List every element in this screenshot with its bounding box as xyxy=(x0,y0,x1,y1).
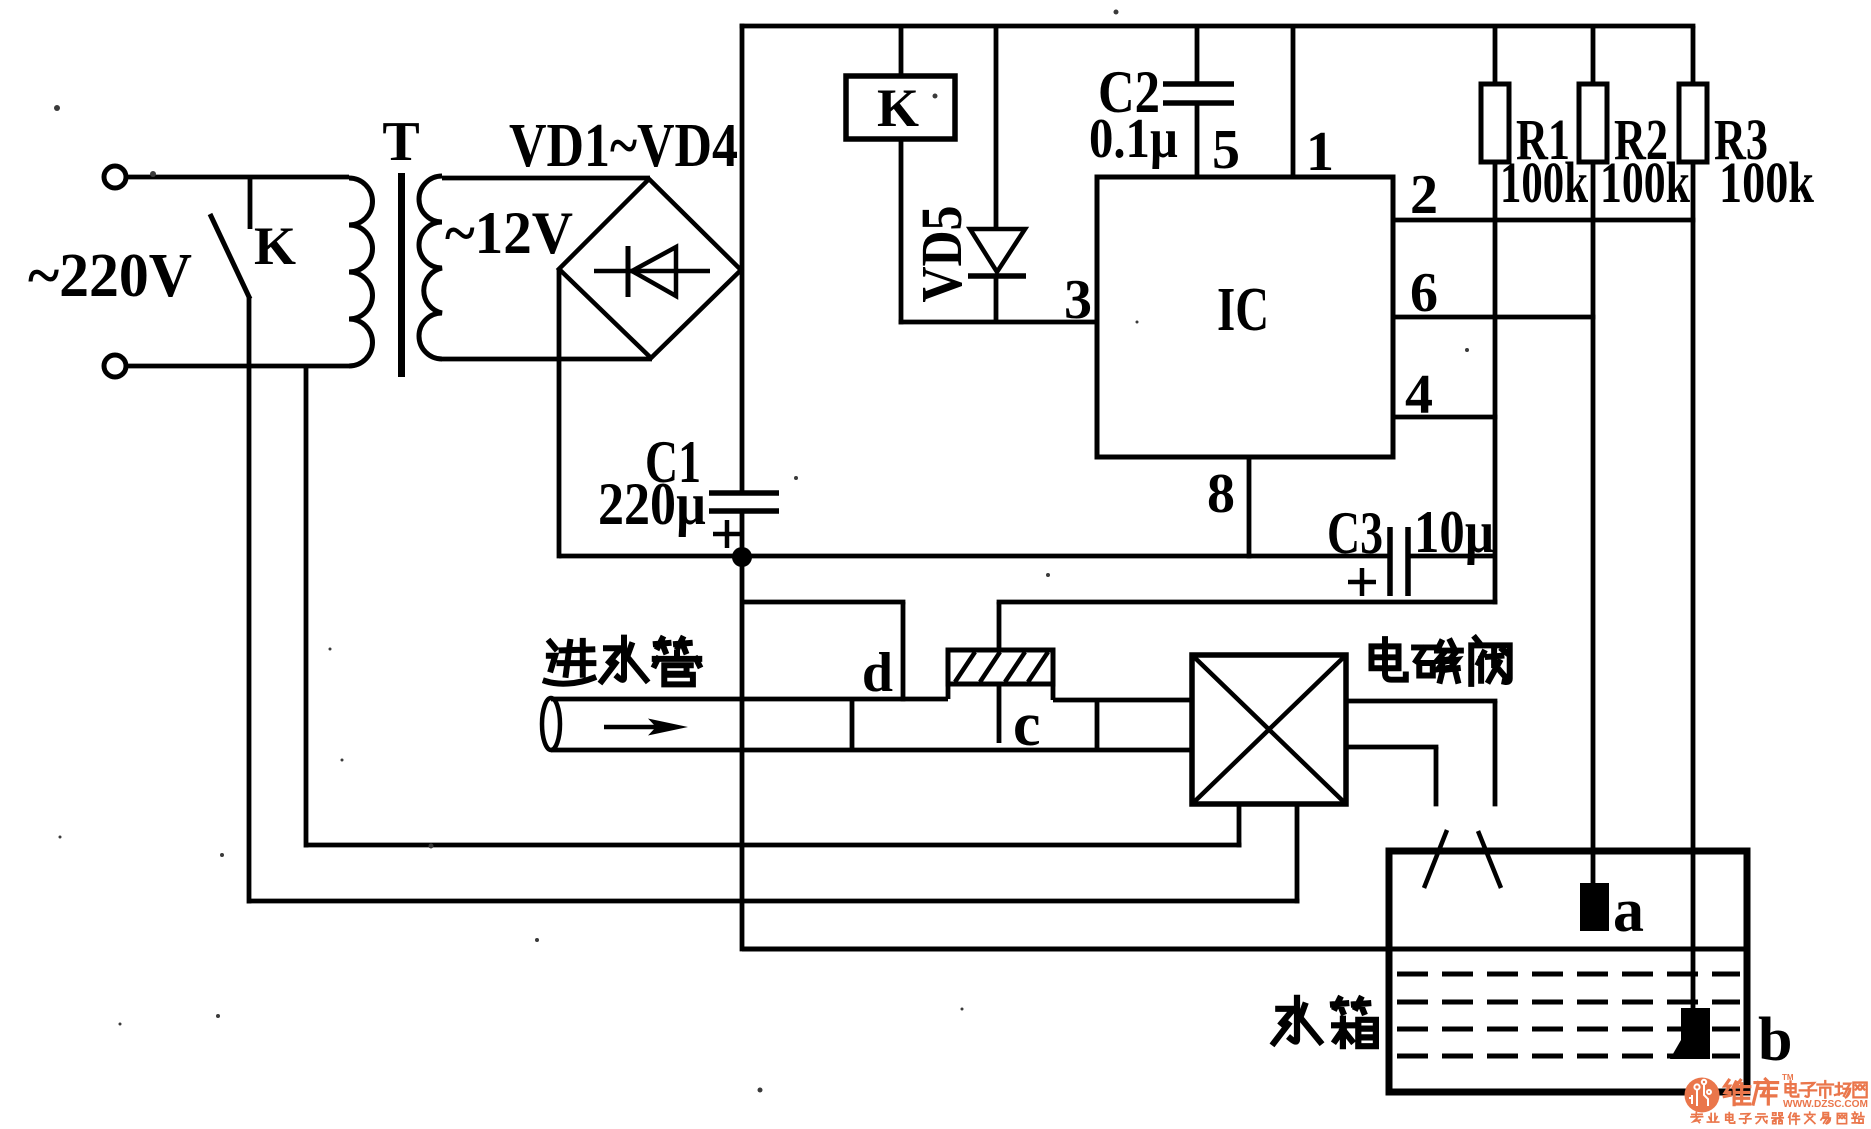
flow sensor left wall to pipe xyxy=(946,684,951,699)
valve outlet pipe right wall xyxy=(1493,701,1498,806)
electrode b xyxy=(1681,1008,1710,1059)
svg-text:220µ: 220µ xyxy=(598,471,706,537)
wire lower rail to solenoid valve right terminal xyxy=(249,899,1300,904)
wire junction to contact d xyxy=(742,600,905,605)
svg-text:1: 1 xyxy=(1306,121,1334,183)
pin 6 wire xyxy=(1393,315,1595,320)
svg-text:b: b xyxy=(1758,1006,1792,1074)
water dashed line 4 xyxy=(1397,1054,1740,1059)
transformer T secondary winding xyxy=(419,176,442,359)
svg-text:6: 6 xyxy=(1410,262,1438,324)
water dashed line 1 xyxy=(1397,972,1740,977)
ground rail xyxy=(559,554,1390,559)
wire junction down to tank water line xyxy=(740,557,745,951)
wire diode VD5 to pin 3 line xyxy=(994,276,999,322)
water pipe joint seam 2 xyxy=(1095,700,1100,750)
svg-text:100k: 100k xyxy=(1500,150,1589,215)
svg-text:a: a xyxy=(1613,877,1644,945)
pin 2 wire xyxy=(1393,218,1695,223)
svg-text:5: 5 xyxy=(1212,119,1240,181)
watermark logo circle xyxy=(1685,1078,1720,1113)
pin 4 wire xyxy=(1393,415,1497,420)
wire top rail to resistor R2 xyxy=(1591,26,1596,86)
junction node dot xyxy=(732,547,752,567)
label 进水管 water inlet pipe xyxy=(546,641,594,684)
bridge rectifier inner diode triangle xyxy=(632,247,676,296)
resistor R2 xyxy=(1579,84,1607,162)
water pipe top wall right xyxy=(1053,698,1194,703)
wire transformer bottom down to lower rail xyxy=(304,366,309,848)
watermark text dianzishichangwang xyxy=(1785,1081,1798,1096)
svg-text:~12V: ~12V xyxy=(445,200,573,266)
svg-text:100k: 100k xyxy=(1719,150,1815,215)
water spray mark left xyxy=(1424,830,1447,888)
pin 1 wire from top rail xyxy=(1291,26,1296,180)
relay K box xyxy=(846,76,955,139)
wire top rail to diode VD5 xyxy=(994,26,999,231)
bridge rectifier inner diode cathode bar xyxy=(626,246,631,297)
water tank box xyxy=(1389,851,1747,1092)
wire V+ vertical from top rail through bridge to C1 xyxy=(740,24,745,493)
water spray mark right xyxy=(1478,831,1501,888)
svg-text:d: d xyxy=(862,642,893,704)
C3 polarity plus sign xyxy=(1348,580,1376,585)
svg-text:~220V: ~220V xyxy=(28,242,192,310)
switch K blade xyxy=(210,214,250,299)
terminal circle top xyxy=(104,166,126,188)
svg-text:10µ: 10µ xyxy=(1414,499,1494,565)
svg-text:3: 3 xyxy=(1064,269,1092,331)
wire bottom terminal to transformer primary xyxy=(126,364,349,369)
flow sensor hatch strokes xyxy=(955,652,1048,682)
svg-text:WWW.DZSC.COM: WWW.DZSC.COM xyxy=(1783,1098,1868,1110)
svg-text:C3: C3 xyxy=(1327,500,1383,566)
C1 polarity plus sign xyxy=(713,532,741,537)
svg-text:IC: IC xyxy=(1217,276,1269,344)
water dashed line 2 xyxy=(1397,1000,1740,1005)
IC box xyxy=(1097,177,1393,457)
water pipe inlet end cap xyxy=(542,698,560,750)
wire relay K to pin 3 line xyxy=(899,139,904,324)
diode VD5 cathode bar xyxy=(968,273,1026,279)
wire resistor R1 down to C3 and contact c line xyxy=(1493,162,1498,604)
wire top terminal to transformer primary xyxy=(126,175,349,180)
resistor R1 xyxy=(1481,84,1509,162)
flow direction arrow xyxy=(604,725,658,730)
pin 8 wire xyxy=(1247,457,1252,559)
wire resistor R2 down to electrode a xyxy=(1591,162,1596,884)
capacitor C3 right plate xyxy=(1405,527,1411,596)
transformer T primary winding xyxy=(349,178,373,366)
wire switch K down to lower rail xyxy=(247,296,252,904)
capacitor C2 top plate xyxy=(1163,81,1234,87)
resistor R3 xyxy=(1679,84,1707,162)
valve outlet pipe inner wall xyxy=(1434,747,1439,806)
water pipe joint seam 1 xyxy=(850,699,855,750)
svg-text:8: 8 xyxy=(1207,463,1235,525)
wire secondary bottom to bridge xyxy=(442,357,652,362)
top rail xyxy=(740,24,1696,29)
wire top rail to resistor R3 xyxy=(1691,26,1696,86)
valve outlet pipe inner bottom xyxy=(1346,745,1438,750)
solenoid valve box xyxy=(1192,655,1346,804)
water pipe top wall left xyxy=(551,697,948,702)
svg-text:4: 4 xyxy=(1405,364,1433,426)
wire top rail to relay K xyxy=(899,26,904,77)
diode VD5 triangle xyxy=(970,229,1025,272)
wire to water tank water level line xyxy=(742,947,1744,952)
capacitor C1 bottom plate xyxy=(709,508,779,514)
capacitor C2 bottom plate xyxy=(1163,100,1234,106)
wire bridge left vertex down to ground rail xyxy=(557,269,562,558)
svg-text:T: T xyxy=(382,111,419,173)
wire top rail to capacitor C2 xyxy=(1195,26,1200,85)
water dashed line 3 xyxy=(1397,1027,1740,1032)
wire top rail to resistor R1 xyxy=(1493,26,1498,86)
scan specks xyxy=(54,10,1469,1093)
wire secondary top to bridge xyxy=(442,176,650,181)
wire contact c to R1 and C3 xyxy=(997,600,1498,605)
switch K contact stub xyxy=(248,177,253,229)
contact c wire xyxy=(997,602,1002,743)
contact d wire xyxy=(901,602,906,701)
wire C1 to junction xyxy=(740,511,745,557)
capacitor C1 top plate xyxy=(709,490,779,496)
watermark text weiku xyxy=(1724,1080,1750,1104)
capacitor C3 left plate xyxy=(1387,527,1393,596)
water pipe bottom wall xyxy=(551,748,1194,753)
svg-text:VD5: VD5 xyxy=(909,206,974,303)
label 电磁阀 solenoid valve xyxy=(1371,639,1405,680)
flow sensor right wall to pipe xyxy=(1051,684,1056,700)
solenoid valve X diagonal 2 xyxy=(1192,655,1346,804)
pin 3 wire xyxy=(899,320,1097,325)
svg-text:K: K xyxy=(254,216,296,276)
bridge rectifier inner diode line xyxy=(594,269,710,274)
valve terminal wire left xyxy=(1237,804,1242,847)
flow sensor hatched block xyxy=(948,650,1053,684)
terminal circle bottom xyxy=(104,355,126,377)
label 水箱 water tank xyxy=(1274,998,1320,1043)
svg-text:K: K xyxy=(877,78,919,138)
wire lower rail to solenoid valve left terminal xyxy=(306,843,1242,848)
watermark tagline xyxy=(1691,1112,1703,1122)
wire resistor R3 down to electrode b xyxy=(1691,162,1696,1010)
wire capacitor C2 to IC pin 5 xyxy=(1195,103,1200,180)
svg-text:0.1µ: 0.1µ xyxy=(1089,108,1178,170)
svg-text:TM: TM xyxy=(1782,1073,1794,1082)
svg-text:2: 2 xyxy=(1410,164,1438,226)
wire C3 right plate to R1 bottom xyxy=(1408,554,1497,559)
bridge rectifier VD1~VD4 diamond xyxy=(559,179,741,358)
transformer T core xyxy=(398,173,405,377)
electrode a xyxy=(1580,883,1609,931)
valve terminal wire right xyxy=(1295,804,1300,903)
solenoid valve X diagonal 1 xyxy=(1192,655,1346,804)
valve outlet pipe top xyxy=(1346,699,1497,704)
svg-text:VD1~VD4: VD1~VD4 xyxy=(509,112,738,180)
